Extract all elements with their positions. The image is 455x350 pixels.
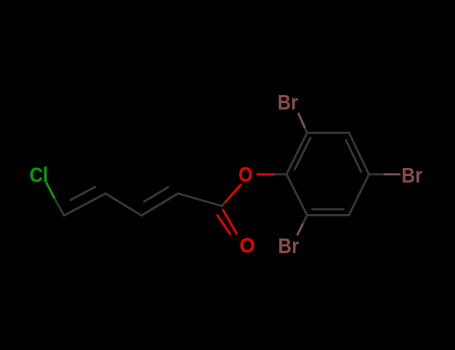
svg-text:O: O xyxy=(240,235,256,258)
bond Cl-C5 (green half) xyxy=(47,183,56,199)
bond Cl-C5 (gray half) xyxy=(55,199,64,215)
ring bond A3-A4 xyxy=(349,133,369,175)
bond C3-C2 xyxy=(142,194,179,216)
ring bond A3-A4 double inner line xyxy=(346,140,361,172)
bond A6-Br bottom (gray half) xyxy=(303,215,308,224)
bond C2-C1 xyxy=(178,194,222,207)
svg-text:Br: Br xyxy=(278,235,299,258)
bond A2-Br top (brown half) xyxy=(299,114,305,128)
bond C1=O carbonyl line 2 xyxy=(217,215,230,234)
svg-text:Br: Br xyxy=(278,92,299,115)
bond C1=O carbonyl line 1 xyxy=(223,210,237,234)
bond A6-Br bottom (brown half) xyxy=(298,225,303,235)
bond O ester - ring A1 (red half) xyxy=(258,173,276,175)
bond C5-C4 xyxy=(64,194,106,216)
svg-text:Cl: Cl xyxy=(30,164,49,187)
bond C5-C4 double inner line xyxy=(71,187,96,200)
bond O ester - ring A1 (gray half) xyxy=(275,173,287,175)
bond C3-C2 double inner line xyxy=(144,187,168,202)
ring bond A5-A6 double inner line xyxy=(312,208,343,210)
bond A4-Br right (gray half) xyxy=(369,173,385,175)
ring bond A1-A2 double inner line xyxy=(295,138,311,169)
bond C4-C3 xyxy=(106,194,142,216)
ring bond A1-A2 xyxy=(287,133,308,175)
bond A2-Br top (gray half) xyxy=(305,127,308,133)
svg-text:O: O xyxy=(239,164,253,187)
ring bond A2-A3 xyxy=(307,132,349,134)
ring bond A4-A5 xyxy=(349,174,369,215)
ring bond A5-A6 xyxy=(307,214,349,216)
ring bond A6-A1 xyxy=(287,174,308,215)
bond A4-Br right (brown half) xyxy=(385,173,400,175)
bond C1-O ester (red part) xyxy=(226,185,241,202)
svg-text:Br: Br xyxy=(402,165,423,188)
bond C1-O ester (gray stub) xyxy=(222,202,226,206)
